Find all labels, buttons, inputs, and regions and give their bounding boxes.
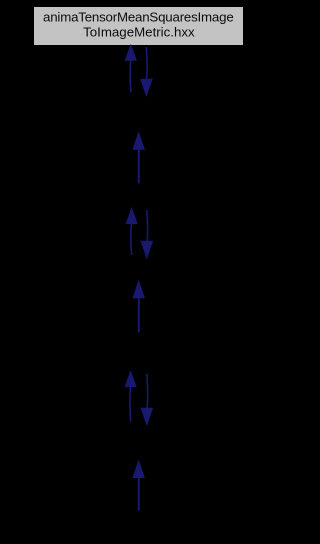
wire up D [138,297,140,332]
wire down A [145,47,148,79]
node N1 animaTensorMeanSquaresImageToImageMetric.hxx (grey box) [34,7,244,46]
arrowhead up E [125,372,136,387]
arrowhead up D [133,281,144,297]
edge D: N5 -> N4 [133,281,144,332]
wire up F [138,477,140,511]
svg-text:animaTensorMeanSquaresImage: animaTensorMeanSquaresImage [43,9,233,24]
wire up E [129,387,132,422]
arrowhead up A [125,45,136,60]
edge pair C: N4 <-> N3 [126,209,152,258]
arrowhead down C [141,241,152,258]
edge B: N3 -> N2 [133,133,144,184]
arrowhead up B [133,133,144,149]
arrowhead down A [141,79,152,95]
arrowhead up C [126,209,137,224]
wire up B [138,149,140,184]
arrowhead up F [133,461,144,477]
edge F: N7 -> N6 [133,461,144,511]
wire up C [130,223,133,255]
wire up A [129,60,132,93]
edge pair E: N6 <-> N5 [125,372,152,425]
wire down E [146,374,149,409]
wire down C [146,210,149,241]
arrowhead down E [141,408,152,424]
svg-text:ToImageMetric.hxx: ToImageMetric.hxx [83,25,195,40]
edge pair A: N2 <-> N1 [125,45,152,95]
